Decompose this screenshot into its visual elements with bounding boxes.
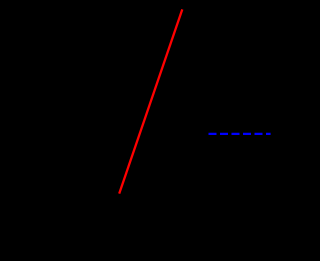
- blue dashed line (horizontal threshold segment): [209, 133, 271, 135]
- red line (rising data series): [119, 9, 182, 193]
